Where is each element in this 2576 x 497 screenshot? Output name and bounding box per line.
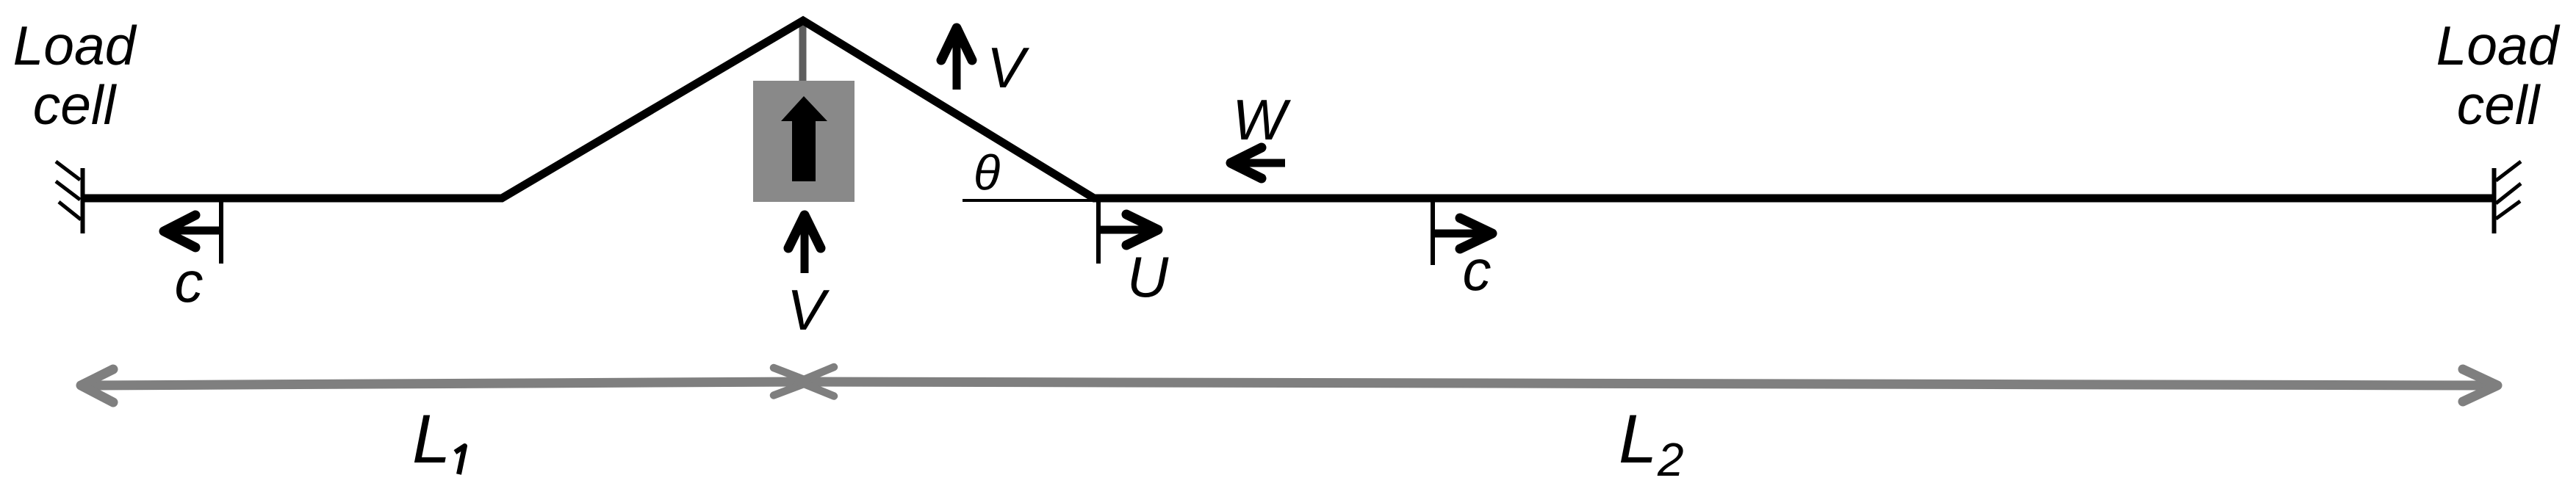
svg-text:L: L [412,400,450,477]
svg-text:U: U [1127,244,1169,309]
junction tick for U [1096,198,1101,264]
gray mass box [753,81,855,202]
gray hanger line from apex to mass box [799,18,807,82]
force arrow W [1234,159,1285,167]
svg-text:W: W [1232,87,1291,152]
svg-text:V: V [787,277,830,342]
svg-text:c: c [1463,238,1492,302]
dimension line L1 [90,382,803,385]
string with triangular pulse [81,21,2494,198]
svg-text:2: 2 [1657,433,1684,486]
force arrow V on right slope [953,32,961,90]
right wave-speed tick [1431,200,1435,265]
force arrow c left [168,227,220,235]
svg-text:Load: Load [13,15,137,76]
dimension line L2 [801,382,2489,385]
svg-text:θ: θ [974,145,1000,200]
force arrow U [1099,226,1154,234]
svg-text:V: V [987,35,1030,100]
left support wall post [81,168,85,233]
left support hatch 2 [56,181,80,200]
right support hatch 2 [2496,184,2521,203]
left support hatch 1 [56,162,80,180]
svg-text:c: c [175,250,204,314]
force arrow c right [1433,230,1489,238]
force arrow V below mass box [801,219,809,273]
right support hatch 1 [2496,162,2521,181]
svg-text:Load: Load [2436,15,2561,76]
left wave-speed tick [219,198,223,264]
svg-text:L: L [1619,400,1657,477]
left support hatch 3 [59,202,81,220]
theta baseline [963,199,1100,202]
right support wall post [2492,168,2497,233]
svg-text:cell: cell [33,74,118,136]
svg-text:cell: cell [2457,74,2541,136]
right support hatch 3 [2496,201,2520,219]
block arrow up inside mass box [781,96,827,181]
